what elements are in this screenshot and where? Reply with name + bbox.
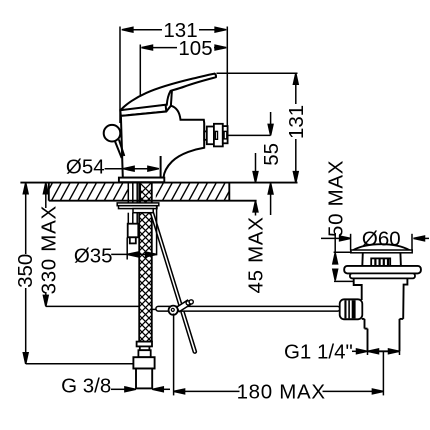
pop-up knob stem — [115, 141, 122, 158]
extension line pipe centre down — [382, 351, 384, 395]
shank continuing below nut — [127, 213, 129, 224]
drain body — [354, 278, 362, 300]
hose collar — [140, 346, 150, 350]
extension line at 350 bottom to hose nut — [26, 363, 134, 365]
drain tail pipe — [367, 329, 369, 352]
extension line right shared by 131/105 — [226, 27, 228, 136]
svg-text:45 MAX: 45 MAX — [245, 216, 268, 293]
drain plug brim — [351, 250, 412, 253]
dimension 330 MAX — [38, 183, 61, 307]
svg-text:180 MAX: 180 MAX — [237, 380, 326, 403]
rod clamp at joint — [177, 300, 191, 311]
drain plug dome — [353, 244, 410, 250]
rod boss on drain — [340, 299, 363, 319]
svg-text:Ø35: Ø35 — [74, 245, 113, 268]
extension line at 330 bottom to rod — [46, 305, 140, 307]
horizontal pop-up linkage rod — [150, 308, 156, 310]
mounting nut — [119, 206, 158, 209]
deck left edge — [48, 183, 50, 201]
50 MAX lower extension line — [334, 280, 353, 282]
faucet handle lever blade — [121, 74, 216, 112]
svg-text:G 3/8: G 3/8 — [61, 375, 111, 398]
aerator neck — [204, 131, 207, 139]
svg-text:55: 55 — [260, 143, 283, 166]
aerator end cap — [223, 126, 228, 143]
dimension Ø60 — [321, 227, 429, 250]
dimension 50 MAX — [324, 160, 347, 280]
base cylinder right edge — [160, 156, 162, 178]
deck hatching — [42, 181, 235, 202]
dimension G 3/8 — [61, 375, 170, 398]
drain washer — [350, 273, 415, 278]
drain waist — [361, 253, 364, 266]
faucet cap band — [120, 105, 166, 116]
dimension 105 horizontal — [142, 37, 227, 60]
50 MAX upper extension line — [334, 251, 352, 253]
extension line 105 left (faucet centre) — [139, 45, 141, 205]
Ø35 extension lines — [126, 238, 128, 260]
dimension 131 vertical right — [285, 73, 308, 182]
extension line left of 131 — [119, 27, 121, 124]
hose end fitting upper — [128, 224, 139, 238]
svg-text:50 MAX: 50 MAX — [324, 160, 347, 237]
mounting washer plate — [117, 203, 159, 206]
dimension Ø35 — [74, 245, 157, 268]
dimension 55 — [260, 112, 283, 215]
braided supply hose — [133, 176, 158, 369]
extension line from ball joint down to 180 MAX — [173, 314, 175, 396]
threaded shank lines in deck hole — [127, 183, 129, 204]
hose end crimp — [137, 342, 152, 347]
pop-up knob ball — [104, 125, 121, 142]
deck top line — [20, 182, 297, 184]
svg-text:Ø54: Ø54 — [66, 155, 105, 178]
deck hatch right edge — [228, 183, 230, 201]
dimension G1 1/4" — [284, 340, 400, 363]
dimension 45 MAX (deck thickness) — [245, 153, 268, 293]
extension line from handle top to vertical 131 — [217, 72, 298, 74]
dimension Ø54 of base — [66, 155, 159, 178]
ball joint — [169, 306, 178, 315]
svg-text:G1 1/4": G1 1/4" — [284, 340, 353, 363]
hose nut — [133, 357, 154, 368]
base plate — [119, 178, 164, 183]
drain flange — [344, 266, 421, 274]
drain Ø60 extension lines — [350, 234, 352, 251]
dimension 131 horizontal top — [122, 19, 226, 42]
G 3/8 tube — [136, 369, 152, 389]
aerator ring 1 — [207, 127, 214, 145]
svg-text:131: 131 — [285, 105, 308, 139]
drain adjuster nut — [371, 258, 390, 266]
svg-text:330 MAX: 330 MAX — [38, 205, 61, 294]
deck bottom line with extension for 45 MAX — [49, 200, 257, 202]
dimension 350 left — [14, 183, 37, 364]
pop-up vertical rod (diagonal) — [148, 206, 196, 354]
dimension 180 MAX — [174, 380, 384, 403]
aerator ring 2 — [214, 124, 223, 147]
svg-text:Ø60: Ø60 — [362, 227, 401, 250]
leader from aerator centre for 55 — [228, 134, 271, 136]
drain collar — [364, 319, 366, 329]
svg-text:350: 350 — [14, 254, 37, 288]
handle pivot post — [171, 91, 172, 106]
svg-text:105: 105 — [178, 37, 212, 60]
faucet body with spout — [121, 106, 204, 178]
